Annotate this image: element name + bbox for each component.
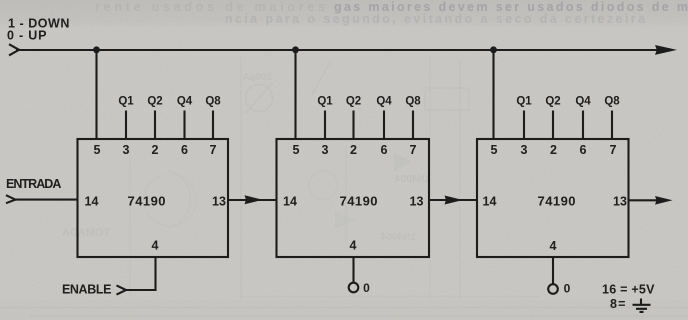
svg-text:1N4004: 1N4004	[381, 232, 416, 243]
wire U3 Q1 stub	[523, 111, 525, 140]
svg-text:Q8: Q8	[604, 95, 620, 107]
wire ENTRADA to U1 pin14	[13, 199, 78, 201]
input chevron DOWN/UP line	[9, 44, 19, 55]
wire top bus	[16, 49, 658, 51]
svg-text:0 - UP: 0 - UP	[7, 29, 47, 43]
bleed wire vertical	[129, 150, 131, 295]
wire drop to IC3 pin5	[492, 50, 494, 139]
svg-text:3: 3	[521, 143, 528, 157]
svg-text:14: 14	[85, 195, 99, 209]
svg-text:6: 6	[181, 143, 188, 157]
wire U1 Q8 stub	[212, 111, 214, 140]
svg-text:Q8: Q8	[405, 95, 421, 107]
svg-text:Q1: Q1	[317, 95, 333, 107]
svg-text:2: 2	[152, 143, 159, 157]
svg-text:5: 5	[94, 143, 101, 157]
wire U2 pin13 to U3 pin14	[429, 199, 477, 201]
IC U3 74190 box	[477, 139, 629, 257]
svg-text:rente usados de maiores: rente usados de maiores	[95, 0, 325, 14]
arrowhead U2 to U3	[445, 196, 464, 205]
wire U3 pin13 output	[629, 199, 659, 201]
wire U2 pin4 stub	[352, 257, 354, 283]
bleed circle	[309, 171, 337, 199]
svg-text:Q1: Q1	[516, 95, 532, 107]
input chevron ENTRADA	[6, 195, 15, 203]
wire U2 Q8 stub	[412, 111, 414, 140]
svg-text:0: 0	[564, 282, 571, 296]
bleed wire vertical	[345, 150, 347, 240]
svg-text:200µA: 200µA	[242, 72, 272, 83]
bleed wire horizontal	[0, 307, 688, 309]
wire U1 pin13 to U2 pin14	[228, 199, 277, 201]
junction dot node C	[490, 46, 497, 53]
wire U1 Q2 stub	[154, 111, 156, 140]
wire U1 pin4 to ENABLE	[126, 257, 156, 290]
wire U2 Q4 stub	[383, 111, 385, 140]
svg-text:74190: 74190	[340, 194, 378, 209]
wire drop to IC1 pin5	[95, 50, 97, 139]
svg-text:7: 7	[210, 143, 217, 157]
svg-text:74190: 74190	[538, 194, 576, 209]
bleed wire vertical	[240, 58, 242, 300]
paper grain	[0, 0, 1, 1]
terminal U3 pin4	[548, 284, 558, 294]
wire U3 Q2 stub	[552, 111, 554, 140]
junction dot node A	[93, 46, 100, 53]
bleed meter needle	[246, 82, 273, 113]
bleed circle	[144, 174, 196, 226]
wire U2 Q2 stub	[352, 111, 354, 140]
svg-text:13: 13	[410, 195, 424, 209]
bleed arc	[168, 170, 190, 228]
ground symbol	[633, 299, 651, 312]
svg-text:3: 3	[123, 143, 130, 157]
bleed wire vertical	[459, 60, 461, 300]
wire U3 Q4 stub	[582, 111, 584, 140]
svg-text:4: 4	[350, 239, 357, 253]
svg-text:5: 5	[293, 143, 300, 157]
svg-text:ncia para o segundo, evitando: ncia para o segundo, evitando a seco da …	[225, 12, 646, 26]
IC U2 74190 box	[277, 139, 430, 257]
svg-text:2: 2	[550, 143, 557, 157]
svg-text:74190: 74190	[128, 194, 166, 209]
svg-text:2: 2	[350, 143, 357, 157]
bleed diode	[394, 152, 412, 172]
svg-text:Q2: Q2	[346, 95, 361, 107]
bleed flipped text fragments	[62, 72, 430, 243]
svg-text:4: 4	[550, 239, 557, 253]
svg-text:14: 14	[483, 195, 497, 209]
svg-text:7: 7	[610, 143, 617, 157]
junction dot node B	[292, 46, 299, 53]
svg-text:8 =: 8 =	[610, 297, 626, 311]
bleed wire horizontal	[240, 296, 540, 298]
svg-text:1N4004: 1N4004	[395, 174, 430, 185]
svg-text:6: 6	[381, 143, 388, 157]
input chevron ENABLE	[117, 285, 127, 294]
svg-text:Q4: Q4	[376, 95, 392, 107]
main schematic	[6, 44, 658, 312]
bleed text top	[95, 0, 688, 26]
svg-text:5: 5	[491, 143, 498, 157]
svg-text:ENTRADA: ENTRADA	[6, 177, 62, 191]
bleed diode	[335, 211, 355, 229]
svg-text:Q2: Q2	[545, 95, 560, 107]
wire U1 Q1 stub	[125, 111, 127, 140]
arrowhead top bus	[655, 45, 677, 55]
svg-text:Q4: Q4	[177, 95, 193, 107]
bleed wire horizontal	[30, 315, 688, 317]
wire drop to IC2 pin5	[294, 50, 296, 139]
svg-text:7: 7	[410, 143, 417, 157]
arrowhead output	[655, 196, 673, 205]
svg-text:Q2: Q2	[147, 95, 162, 107]
IC U1 74190 box	[78, 139, 229, 257]
svg-text:3: 3	[322, 143, 329, 157]
bleed box	[425, 88, 469, 110]
svg-text:ENABLE: ENABLE	[62, 283, 112, 297]
svg-text:Q1: Q1	[118, 95, 134, 107]
terminal U2 pin4	[349, 283, 359, 293]
wire U2 Q1 stub	[324, 111, 326, 140]
arrowhead U1 to U2	[245, 195, 263, 204]
wire U3 Q8 stub	[611, 111, 613, 140]
svg-text:6: 6	[580, 143, 587, 157]
svg-text:Q4: Q4	[575, 95, 591, 107]
svg-text:14: 14	[283, 195, 297, 209]
svg-text:13: 13	[613, 195, 627, 209]
svg-text:0: 0	[363, 281, 370, 295]
svg-text:TOMADA: TOMADA	[62, 227, 110, 239]
svg-text:4: 4	[152, 239, 159, 253]
svg-text:16 = +5V: 16 = +5V	[602, 283, 655, 297]
wire U1 Q4 stub	[183, 111, 185, 140]
wire U3 pin4 stub	[552, 257, 554, 284]
bleed wire vertical	[429, 55, 431, 300]
bleed arrow	[312, 62, 330, 95]
svg-text:Q8: Q8	[205, 95, 221, 107]
bleed meter circle	[246, 85, 273, 112]
svg-text:13: 13	[212, 195, 226, 209]
